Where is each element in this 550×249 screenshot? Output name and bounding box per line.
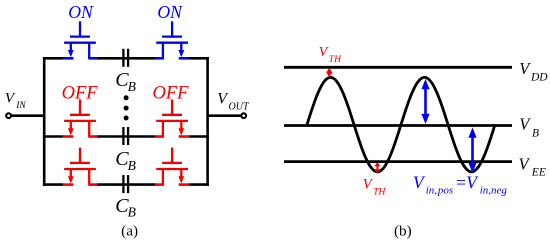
wire middle row segment 3 — [126, 135, 155, 138]
label V_IN — [5, 90, 26, 111]
label V_TH top annotation arrow — [326, 68, 332, 78]
label CB1 value C_B — [115, 69, 136, 94]
node ellipsis dots (repeated stages) — [124, 95, 129, 120]
label V_in,pos = V_in,neg — [413, 173, 507, 197]
svg-text:in,neg: in,neg — [480, 185, 508, 197]
capacitor CB3 — [123, 175, 128, 193]
transistor top-left (ON) — [63, 21, 98, 58]
svg-text:OFF: OFF — [153, 84, 190, 104]
wire right bus — [206, 57, 209, 186]
svg-text:TH: TH — [373, 188, 386, 198]
wire bottom row segment 1 — [43, 183, 63, 186]
wire VIN stub — [11, 114, 44, 117]
arrow V_in,neg swing — [468, 128, 476, 174]
capacitor CB1 — [123, 49, 128, 67]
wire top row segment 4 — [189, 57, 209, 60]
svg-text:(b): (b) — [394, 223, 412, 240]
label V_DD — [519, 59, 548, 84]
transistor bottom-left (OFF) — [63, 148, 98, 185]
svg-text:in, pos: in, pos — [426, 185, 454, 197]
label V_TH bottom text — [363, 177, 387, 198]
svg-text:ON: ON — [68, 2, 94, 22]
node VIN input terminal — [6, 113, 11, 118]
label CB3 value C_B — [115, 195, 136, 220]
label V_EE — [519, 155, 546, 179]
svg-text:IN: IN — [15, 101, 26, 111]
svg-text:TH: TH — [329, 55, 342, 65]
arrow V_in,pos swing — [421, 79, 429, 124]
wire bottom row segment 4 — [189, 183, 209, 186]
wire bottom row segment 2 — [97, 183, 126, 186]
transistor middle-left (OFF) — [63, 100, 98, 137]
wire top row segment 3 — [126, 57, 155, 60]
node VDD rail line — [284, 66, 512, 69]
wire top row segment 2 — [97, 57, 126, 60]
svg-text:EE: EE — [531, 167, 546, 179]
svg-text:B: B — [532, 127, 539, 139]
transistor bottom-right (OFF) — [155, 148, 190, 185]
wire left bus — [43, 57, 46, 186]
label V_B — [519, 115, 539, 140]
wire middle row segment 1 — [43, 135, 63, 138]
transistor top-right (ON) — [155, 21, 190, 58]
wire VOUT stub — [208, 114, 242, 117]
wire bottom row segment 3 — [126, 183, 155, 186]
svg-text:(a): (a) — [121, 223, 138, 240]
svg-text:ON: ON — [157, 2, 183, 22]
wire top row segment 1 — [43, 57, 63, 60]
node VEE rail line — [284, 160, 512, 163]
wire middle row segment 2 — [97, 135, 126, 138]
label CB2 value C_B — [115, 148, 136, 173]
svg-text:DD: DD — [530, 72, 548, 84]
svg-text:B: B — [128, 79, 136, 94]
node VOUT output terminal — [241, 113, 246, 118]
label V_TH top text — [319, 45, 342, 65]
capacitor CB2 — [123, 127, 128, 145]
label V_TH bottom annotation arrow — [374, 162, 380, 173]
svg-text:B: B — [128, 205, 136, 220]
svg-text:=: = — [455, 173, 467, 193]
waveform input sine — [307, 77, 495, 171]
svg-text:OUT: OUT — [229, 102, 250, 113]
wire middle row segment 4 — [189, 135, 209, 138]
transistor middle-right (OFF) — [155, 100, 190, 137]
svg-text:OFF: OFF — [62, 84, 99, 104]
label V_OUT — [217, 90, 250, 112]
node VB rail line — [284, 124, 512, 127]
svg-text:B: B — [128, 158, 136, 173]
svg-text:V: V — [319, 45, 329, 60]
